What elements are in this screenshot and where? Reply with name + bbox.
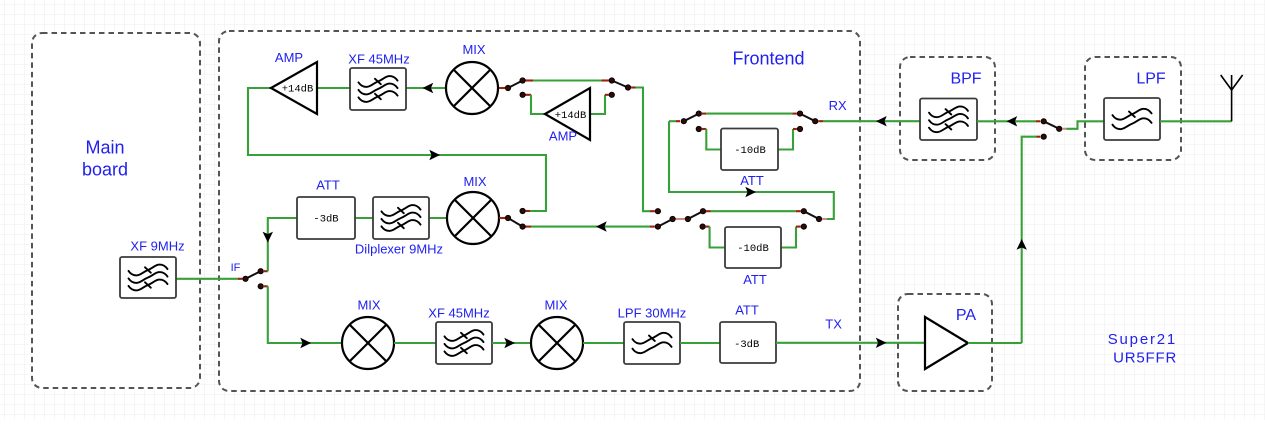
svg-text:UR5FFR: UR5FFR (1113, 350, 1177, 367)
svg-text:XF 45MHz: XF 45MHz (428, 306, 489, 321)
stub IF switch common (238, 278, 242, 280)
filter LPF F5 (1104, 98, 1160, 140)
svg-text:XF 45MHz: XF 45MHz (348, 52, 409, 67)
svg-text:TX: TX (825, 317, 842, 332)
switch S3 IF lever (246, 271, 261, 279)
arrowhead right on AMP U1 output loop (429, 150, 440, 160)
wire diplexer F3 to MIX U4b (429, 217, 447, 219)
switch S4 lever (508, 218, 523, 227)
icon waves of filter F7 (633, 333, 672, 353)
wire XF45MHz-1 to AMP U1 (317, 87, 350, 89)
svg-text:MIX: MIX (463, 174, 486, 189)
switch S1 lever (508, 81, 523, 89)
PA container (898, 294, 992, 391)
switch S4 throw from AMP loop (520, 208, 525, 213)
op-amp U3 AMP +14dB bypassable (545, 88, 590, 140)
svg-text:+14dB: +14dB (282, 84, 314, 96)
switch S7 common pole (816, 216, 821, 221)
icon waves of filter F2 (129, 265, 168, 291)
stub switch S9 east (818, 120, 823, 122)
svg-text:BPF: BPF (950, 71, 981, 88)
wire RX line to MIX U5 (531, 226, 650, 228)
svg-text:+14dB: +14dB (555, 110, 587, 122)
stub node C (650, 210, 655, 212)
switch S1 throw amp (520, 92, 525, 97)
switch S6 lever (688, 211, 703, 219)
wire A3 output up (781, 227, 796, 248)
switch S9 throw attenuator (797, 126, 802, 131)
wire PA output (968, 342, 1022, 344)
wire node to switch S8 (669, 120, 676, 122)
LPF container (1085, 57, 1181, 160)
svg-text:ATT: ATT (743, 272, 767, 287)
switch S10 lever (1044, 121, 1060, 129)
mixer U2 MIX (446, 62, 498, 114)
wire RX feed from upper bypass to S7 (669, 121, 834, 219)
wire switch S2 common down to node C (636, 88, 651, 212)
switch S6 common pole (685, 216, 690, 221)
svg-text:XF 9MHz: XF 9MHz (130, 239, 184, 254)
switch S2 common pole (625, 85, 630, 90)
arrowhead right on RX feed wire (745, 187, 756, 197)
stub A3 input (706, 226, 710, 228)
stub switch S8 common (676, 120, 680, 122)
wire AMP U1 output loop to node B (248, 88, 546, 211)
switch S2 lever (612, 81, 628, 88)
svg-text:LPF: LPF (1136, 71, 1166, 88)
mixer U4 MIX (342, 317, 394, 369)
filter LPF 30MHz F7 (624, 322, 680, 364)
svg-text:LPF 30MHz: LPF 30MHz (618, 306, 687, 321)
stub AMP U3 in (605, 94, 609, 96)
wire MIX U2 to XF45MHz-1 (406, 87, 446, 89)
switch S8 lever (684, 114, 699, 122)
arrowhead right to MIX U6 (504, 338, 515, 348)
arrowhead right on TX wire (876, 338, 887, 348)
icon waves of filter F4 (929, 106, 968, 132)
filter diplexer F3 (373, 197, 429, 239)
stub MIX U5 output (499, 217, 505, 219)
svg-text:Dilplexer 9MHz: Dilplexer 9MHz (355, 242, 443, 257)
wire XF9MHz to IF switch (176, 278, 238, 280)
arrowhead right on wire to MIX U4 (300, 338, 311, 348)
arrowhead left on BPF wire (1007, 116, 1018, 126)
wire MIX U4 to XF45MHz-2 (394, 342, 436, 344)
op-amp U7 PA (925, 317, 968, 369)
wire XF45MHz-2 to MIX U6 (492, 342, 531, 344)
stub bypass2 west (706, 210, 711, 212)
wire BPF to antenna switch (977, 120, 1036, 122)
wire switch S6 to A3 input (710, 227, 725, 248)
svg-text:MIX: MIX (357, 298, 380, 313)
wire PA output riser to S10 (1022, 137, 1037, 343)
stub RX line east end (650, 226, 655, 228)
attenuator A2 -10dB (721, 129, 778, 171)
icon waves of filter F6 (445, 330, 484, 356)
switch S4 common pole (505, 215, 510, 220)
svg-text:AMP: AMP (549, 129, 577, 144)
stub bypass1 east (792, 113, 797, 115)
svg-text:MIX: MIX (462, 42, 485, 57)
svg-text:ATT: ATT (316, 178, 340, 193)
wire IF TX throw down to MIX U4 (268, 286, 342, 343)
stub RX line west end (526, 226, 532, 228)
attenuator A3 -10dB (725, 227, 781, 268)
switch S9 lever (800, 114, 815, 122)
icon waves of filter F3 (382, 205, 421, 231)
svg-text:-10dB: -10dB (737, 243, 769, 255)
wire TX to PA (776, 342, 925, 344)
switch S7 throw attenuator (801, 224, 806, 229)
icon waves of filter F5 (1113, 109, 1152, 129)
svg-text:MIX: MIX (544, 298, 567, 313)
link switch S10 common (1062, 128, 1066, 130)
switch S8 throw bypass (696, 111, 701, 116)
switch S10 throw RX (1041, 119, 1046, 124)
svg-text:board: board (82, 160, 128, 180)
switch S9 common pole (813, 119, 818, 124)
stub bypass1 west (702, 113, 706, 115)
wire S10 to LPF (1066, 121, 1104, 129)
svg-text:-3dB: -3dB (313, 214, 338, 226)
wire AMP U3 input from switch (590, 95, 605, 114)
svg-text:ATT: ATT (740, 173, 764, 188)
switch S4 throw RX line (520, 224, 525, 229)
wire LPF30 to ATT A4 (680, 342, 720, 344)
svg-text:Main: Main (85, 138, 124, 158)
antenna ANT1 (1221, 75, 1243, 121)
filter XF 45MHz F6 (436, 322, 492, 364)
stub A2 output (793, 128, 797, 130)
stub red left of bypass U3 (526, 79, 534, 81)
switch S7 throw bypass (801, 209, 806, 214)
wire IF RX throw up to ATT A1 (268, 218, 297, 271)
arrowhead left on RX line to MIX U5 (596, 221, 607, 231)
wire RX from BPF into frontend (823, 120, 920, 122)
switch S8 throw attenuator (696, 126, 701, 131)
svg-text:AMP: AMP (275, 50, 303, 65)
switch S1 common pole (505, 85, 510, 90)
Main board container (32, 33, 200, 388)
wire LPF to antenna (1160, 120, 1232, 122)
wire A2 output up (778, 129, 793, 150)
switch S6 throw attenuator (700, 224, 705, 229)
switch S2 throw bypass (609, 78, 614, 83)
op-amp U1 AMP +14dB (271, 62, 317, 114)
stub node B throw (526, 210, 530, 212)
mixer U5 MIX (447, 192, 499, 244)
wire ATT A1 to diplexer F3 (355, 217, 373, 219)
arrowhead left on RX wire (876, 116, 887, 126)
wire switch S8 to A2 input (706, 129, 721, 150)
link switch S7 common (822, 218, 827, 220)
stub A3 output (796, 226, 801, 228)
wire AMP U3 output to switch (531, 95, 545, 114)
switch S3 common pole (243, 276, 248, 281)
svg-text:ATT: ATT (735, 303, 759, 318)
filter XF 9MHz F2 (120, 257, 176, 298)
wire MIX U6 to LPF30 (583, 342, 624, 344)
stub MIX U2 output (499, 87, 505, 89)
switch S5 throw RX line (655, 224, 660, 229)
switch S6 throw bypass (700, 209, 705, 214)
svg-text:Super21: Super21 (1108, 331, 1177, 348)
Frontend container (219, 31, 860, 391)
arrowhead left on wire MIX U2 to XF45MHz-1 (423, 83, 434, 93)
wire bypass around A3 (711, 210, 796, 212)
switch S3 throw RX (258, 269, 263, 274)
mixer U6 MIX (531, 317, 583, 369)
link switch S5-S6 commons (676, 218, 685, 220)
svg-text:IF: IF (231, 262, 241, 274)
filter XF 45MHz F1 (350, 68, 406, 110)
stub red right of bypass U3 (602, 79, 609, 81)
wire bypass around A2 (706, 113, 792, 115)
stub S10 RX throw (1036, 120, 1040, 122)
svg-text:PA: PA (956, 307, 976, 324)
switch S10 common pole (1057, 126, 1062, 131)
switch S5 throw from S2 (655, 209, 660, 214)
svg-text:Frontend: Frontend (732, 49, 804, 69)
stub switch S2 common (631, 86, 635, 88)
arrowhead down on IF RX riser (263, 232, 273, 243)
attenuator A1 -3dB (297, 197, 355, 239)
svg-text:-3dB: -3dB (734, 339, 759, 351)
stub AMP U3 out (526, 94, 532, 96)
icon waves of filter F1 (359, 76, 398, 102)
switch S8 common pole (681, 119, 686, 124)
stub S10 TX throw (1037, 136, 1041, 138)
stub IF switch TX throw (264, 285, 268, 287)
switch S7 lever (804, 211, 819, 219)
switch S3 throw TX (258, 284, 263, 289)
switch S2 throw amp (609, 92, 614, 97)
svg-text:RX: RX (829, 98, 847, 113)
svg-text:-10dB: -10dB (734, 145, 766, 157)
wire bypass of AMP U3 (533, 79, 602, 81)
switch S9 throw bypass (797, 111, 802, 116)
switch S1 throw bypass (520, 78, 525, 83)
arrowhead up on PA riser (1017, 239, 1027, 250)
switch S5 lever (658, 219, 673, 227)
stub bypass2 east (796, 210, 801, 212)
stub IF switch RX throw (264, 270, 268, 272)
switch S5 common pole (670, 216, 675, 221)
BPF container (900, 57, 995, 160)
filter BPF F4 (920, 99, 977, 141)
attenuator A4 -3dB (720, 322, 776, 363)
stub A2 input (702, 128, 706, 130)
switch S10 throw TX (1041, 134, 1046, 139)
